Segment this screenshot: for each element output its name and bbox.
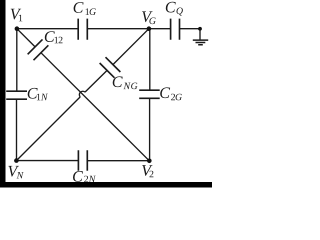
ground node dot xyxy=(198,27,202,31)
node VN dot xyxy=(14,158,19,163)
ground symbol xyxy=(193,40,208,45)
label C12 xyxy=(45,31,63,43)
wire bottom edge VN to C2N xyxy=(16,160,78,162)
wire diagonal crossing hop to CNG xyxy=(85,70,107,92)
wire right edge C2G to V2 xyxy=(149,98,151,161)
label C2N xyxy=(73,171,96,182)
label C1G xyxy=(74,2,96,15)
capacitor C1G plates xyxy=(78,19,87,40)
label VN xyxy=(8,166,23,178)
capacitor C1N plates xyxy=(6,91,27,99)
wire diagonal C12 to V2 xyxy=(41,53,149,161)
capacitor C12 plates xyxy=(28,39,49,60)
node VG dot xyxy=(147,26,152,31)
label C1N xyxy=(28,88,48,100)
wire diagonal V1 to C12 xyxy=(17,29,35,47)
capacitor CNG plates xyxy=(100,57,121,78)
wire bottom edge C2N to V2 xyxy=(87,160,149,162)
capacitor C2N plates xyxy=(78,150,87,170)
wire top edge V1 to C1G xyxy=(17,28,78,30)
label CQ xyxy=(166,2,183,16)
wire diagonal VN to crossing hop xyxy=(16,97,80,161)
label VG xyxy=(142,11,156,24)
wire ground stem xyxy=(199,29,201,40)
wire diagonal CNG to VG xyxy=(113,29,149,65)
wire left edge C1N to VN xyxy=(16,99,18,160)
wire left edge V1 to C1N xyxy=(16,29,18,91)
label V2 xyxy=(142,165,153,177)
wire CQ to ground node xyxy=(180,28,201,30)
wire top edge C1G to VG xyxy=(87,28,149,30)
wire right edge VG to C2G xyxy=(149,29,151,90)
label C2G xyxy=(160,87,182,100)
capacitor C2G plates xyxy=(139,90,160,98)
label V1 xyxy=(11,9,23,21)
label CNG xyxy=(113,76,138,89)
node V1 dot xyxy=(15,26,20,31)
crossing hop arc over diagonal C12-V2 xyxy=(79,91,85,97)
node V2 dot xyxy=(147,159,152,164)
wire VG to CQ xyxy=(149,28,171,30)
capacitor CQ plates xyxy=(171,19,180,40)
